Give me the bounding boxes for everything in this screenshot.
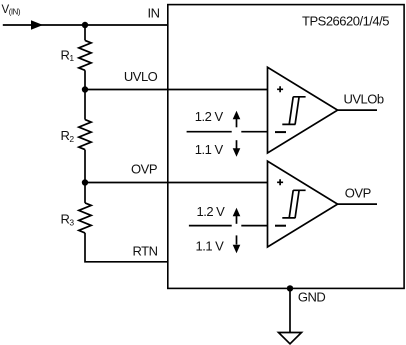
svg-text:1.1 V: 1.1 V bbox=[196, 239, 225, 254]
resistor R1 bbox=[79, 40, 91, 70]
threshold reference line (OVP comparator minus input) bbox=[189, 225, 232, 227]
wire: R3 to RTN pin bbox=[85, 233, 168, 262]
hysteresis symbol (OVP comparator) bbox=[282, 190, 305, 218]
wire: GND to ground symbol bbox=[289, 288, 291, 332]
resistor R2 bbox=[79, 120, 91, 150]
op-amp U1a UVLO comparator bbox=[268, 67, 338, 153]
threshold reference line (UVLO comparator minus input) bbox=[187, 131, 232, 133]
svg-text:IN: IN bbox=[148, 6, 160, 21]
minus input dash (UVLO comparator) bbox=[275, 131, 286, 133]
resistor R3 bbox=[79, 203, 91, 233]
wire: R2 to OVP node bbox=[84, 150, 86, 183]
svg-text:1.1 V: 1.1 V bbox=[195, 142, 224, 157]
wire: OVP node to R3 bbox=[84, 183, 86, 203]
node: UVLO junction bbox=[82, 86, 88, 92]
plus input sign (OVP comparator) bbox=[277, 179, 283, 185]
svg-text:GND: GND bbox=[298, 290, 326, 305]
node: IN / R1 junction bbox=[82, 22, 88, 28]
op-amp U1b OVP comparator bbox=[268, 161, 338, 247]
node: GND pin on box bottom edge bbox=[287, 285, 293, 291]
ground symbol bbox=[279, 333, 302, 344]
node: OVP junction bbox=[82, 179, 88, 185]
svg-text:OVP: OVP bbox=[345, 186, 371, 201]
wire: junction to R1 bbox=[84, 25, 86, 40]
arrowhead on input wire bbox=[31, 20, 43, 30]
wire: OVP node to comparator + input bbox=[85, 182, 268, 184]
svg-text:UVLO: UVLO bbox=[124, 69, 158, 84]
svg-text:1.2 V: 1.2 V bbox=[195, 109, 224, 124]
svg-text:1.2 V: 1.2 V bbox=[197, 204, 226, 219]
up arrow (OVP rising threshold) bbox=[236, 216, 238, 224]
hysteresis symbol (UVLO comparator) bbox=[282, 97, 305, 125]
wire: Vin input to IN pin bbox=[3, 24, 168, 26]
IC box U1 TPS26620/1/4/5 bbox=[168, 5, 404, 289]
svg-text:RTN: RTN bbox=[133, 243, 158, 258]
output wire UVLOb bbox=[338, 109, 377, 111]
svg-text:OVP: OVP bbox=[131, 161, 157, 176]
wire: UVLO node to comparator + input bbox=[85, 89, 268, 91]
output wire OVP bbox=[338, 203, 377, 205]
wire: UVLO node to R2 bbox=[84, 90, 86, 120]
wire: R1 to UVLO node bbox=[84, 70, 86, 89]
minus input dash (OVP comparator) bbox=[275, 225, 286, 227]
svg-text:TPS26620/1/4/5: TPS26620/1/4/5 bbox=[302, 14, 389, 29]
plus input sign (UVLO comparator) bbox=[277, 86, 283, 92]
down arrow (UVLO falling threshold) bbox=[236, 140, 238, 149]
up arrow (UVLO rising threshold) bbox=[236, 119, 238, 128]
svg-text:UVLOb: UVLOb bbox=[344, 91, 384, 106]
down arrow (OVP falling threshold) bbox=[236, 235, 238, 244]
